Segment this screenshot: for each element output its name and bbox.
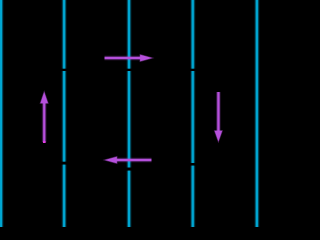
field line L4 upper segment (x=192.8, y 0-68.6) [190,0,195,69]
field line L5 (x=256.9, full height) [254,0,259,227]
arrow A2 (right side, pointing down, tail 218.4,91.5 tip 218.4,141.7) [215,92,223,142]
field line L3 middle segment (x=128.8, y 71-167.5) [127,71,132,168]
field line L4 lower segment (x=192.8, y 165.6-227) [190,166,195,227]
arrow A3 (bottom, pointing left, tail 152,160 tip 104,160) [105,157,152,164]
field line L1 (x=1, full height) [0,0,4,227]
field line L4 middle segment (x=192.8, y 71-163) [190,71,195,163]
arrow A4 (left side, pointing up, tail 44.2,142.5 tip 44.2,91.8) [40,92,48,143]
field line L2 lower segment (x=64.3, y 164.6-227) [62,165,67,227]
field line L3 upper segment (x=128.8, y 0-68.6) [127,0,132,69]
field line L2 upper segment (x=64.3, y 0-68.6) [62,0,67,69]
arrow A1 (top, pointing right, tail 104,58 tip 152,58) [105,55,153,62]
field line L3 lower segment (x=128.8, y 170.6-227) [127,171,132,227]
field line L2 middle segment (x=64.3, y 71-161.6) [62,71,67,162]
